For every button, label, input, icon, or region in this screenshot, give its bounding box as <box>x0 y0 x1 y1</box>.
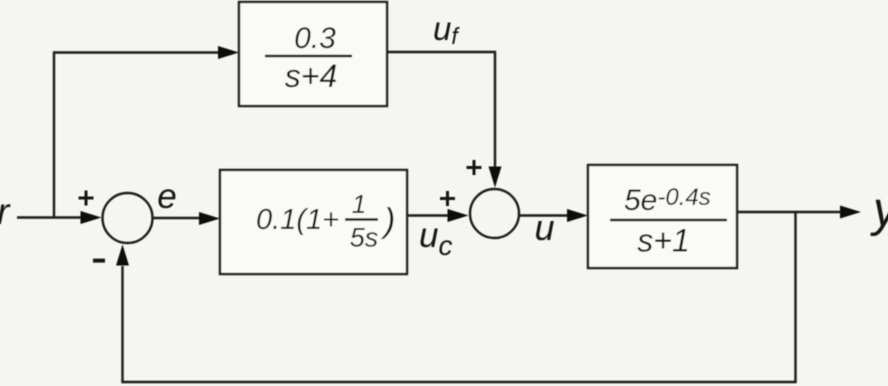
arrowhead into plant block <box>567 209 588 222</box>
summing junction S2 <box>470 189 519 238</box>
arrowhead into summing junction S2 top <box>489 167 502 188</box>
block G_f: 0.3/(s+4) feedforward transfer function <box>239 2 387 106</box>
wire: S2 output u to plant block <box>520 214 570 216</box>
wire: G_f output horizontal run <box>387 51 496 53</box>
wire: feedback vertical up into summing junction S1 <box>121 266 123 383</box>
svg-text:e: e <box>157 177 176 216</box>
block plant: 5e^-0.4s/(s+1) process transfer function <box>588 165 737 268</box>
block controller: 0.1(1+1/5s) PI controller <box>220 170 407 274</box>
svg-text:0.3: 0.3 <box>294 22 336 55</box>
svg-text:5s: 5s <box>350 223 379 253</box>
arrowhead into summing junction S2 left <box>448 209 469 222</box>
arrowhead into summing junction S1 <box>81 211 102 224</box>
svg-text:r: r <box>0 191 11 232</box>
svg-text:y: y <box>870 183 888 237</box>
wire: controller output u_c to summing junction S2 <box>406 214 450 216</box>
wire: feedforward horizontal run into block G_f <box>53 51 221 53</box>
wire: plant output to y <box>737 211 844 213</box>
plus sign at S2 top input <box>467 166 482 169</box>
wire: u_f vertical drop into summing junction S2 <box>494 51 496 168</box>
wire: feedback bottom horizontal run <box>121 381 796 383</box>
wire: S1 output to controller block <box>154 217 203 219</box>
minus sign at S1 bottom input <box>93 259 105 263</box>
fraction bar of G_f <box>265 55 352 58</box>
svg-text:uf: uf <box>433 10 460 49</box>
svg-text:s+4: s+4 <box>285 58 337 94</box>
svg-text:s+1: s+1 <box>637 223 689 259</box>
wire: r input line to summing junction S1 <box>17 216 83 218</box>
arrowhead into block G_f <box>218 46 239 59</box>
wire: feedback vertical down right side <box>794 212 796 383</box>
svg-text:1: 1 <box>352 189 366 219</box>
plus sign at S1 left input <box>79 197 94 200</box>
fraction bar of plant <box>610 219 727 222</box>
svg-text:uc: uc <box>419 216 452 261</box>
arrowhead into summing junction S1 bottom <box>116 245 129 266</box>
svg-text:u: u <box>535 207 555 248</box>
arrowhead at output y <box>840 206 861 219</box>
arrowhead into controller block <box>199 212 220 225</box>
fraction bar of integral term <box>345 218 378 221</box>
summing junction S1 <box>103 193 153 243</box>
svg-text:0.1(1+: 0.1(1+ <box>256 204 339 236</box>
plus sign at S2 left input <box>440 197 455 200</box>
wire: feedforward branch vertical up <box>53 52 55 219</box>
